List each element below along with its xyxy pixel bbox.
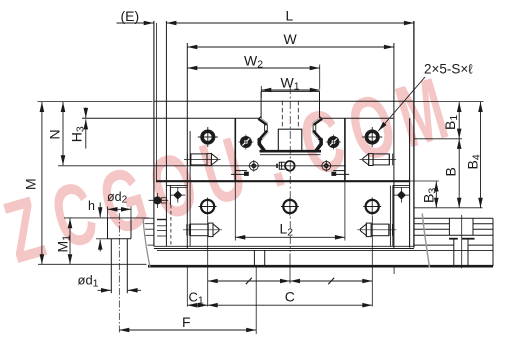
hidden slot line left <box>281 101 283 129</box>
leader line 2x5 <box>378 77 425 131</box>
rack line 2 <box>414 223 450 225</box>
v-groove hatch band A left <box>259 118 267 124</box>
inner right vertical (W ext + table edge) <box>393 43 395 249</box>
dim H3 lower shaft with up arrow <box>85 119 87 148</box>
locating pin wide part <box>107 218 109 239</box>
dim B4 <box>480 102 482 208</box>
dim B3 <box>435 182 437 208</box>
dim L2 <box>235 236 345 238</box>
dim h upper arrow <box>99 203 101 218</box>
svg-text:Z: Z <box>0 178 54 282</box>
left end cap outer edge <box>153 21 155 246</box>
od2 extensions <box>107 207 109 218</box>
inner second vertical line <box>189 131 191 246</box>
chain extension right <box>371 216 373 307</box>
rack line 3 <box>414 228 450 230</box>
chain extension mid <box>289 254 291 284</box>
rack slot block sides <box>448 218 450 235</box>
watermark text diagonal <box>0 59 457 282</box>
left break line gray <box>143 218 150 267</box>
pin step edge <box>108 238 132 240</box>
hole row line / N extension <box>58 165 346 167</box>
svg-text:(E): (E) <box>121 8 140 24</box>
view vertical centerline <box>289 86 291 252</box>
svg-text:N: N <box>47 129 63 139</box>
clamp bracket right <box>332 171 349 176</box>
h bottom extension <box>96 238 108 240</box>
bottom band line 2 <box>154 248 414 250</box>
dim F <box>119 329 256 331</box>
rack slot centerline <box>461 215 463 268</box>
center grease nipple <box>277 161 295 171</box>
rack line 4 <box>414 234 493 236</box>
F right extension <box>255 267 257 334</box>
set screw S1 <box>184 154 221 166</box>
pin centerline <box>118 213 120 334</box>
dim W1 <box>261 89 320 91</box>
dim N <box>62 102 64 165</box>
svg-text:B4: B4 <box>464 154 482 169</box>
B dims bottom extension <box>414 207 483 209</box>
M top extension <box>38 100 153 102</box>
oblique tick 1 <box>246 278 252 285</box>
rail block left side <box>260 91 262 118</box>
bottom band long line <box>157 249 493 251</box>
v-groove hatch band B left <box>259 131 267 151</box>
rack line 5 <box>414 244 454 246</box>
W1 left extension <box>260 86 262 98</box>
rack right edge <box>492 218 494 266</box>
svg-text:B3: B3 <box>420 188 438 203</box>
dim od1 right arrow <box>128 289 141 291</box>
svg-text:L2: L2 <box>280 221 294 239</box>
small counterbore P2 <box>321 160 333 172</box>
clamp bracket left <box>231 171 248 176</box>
svg-text:C: C <box>285 288 295 304</box>
svg-text:L: L <box>286 8 294 24</box>
pin narrow sides + od1 extensions <box>110 239 112 293</box>
rail block right side <box>319 91 321 118</box>
socket screw head C dark <box>326 135 341 150</box>
rail section bottom thick <box>260 150 322 153</box>
svg-text:H3: H3 <box>68 126 86 142</box>
oblique tick 2 <box>328 278 334 285</box>
left end cap middle line <box>155 23 157 181</box>
right plate top double line <box>393 184 410 186</box>
table bottom surface line left <box>64 217 149 219</box>
svg-text:M1: M1 <box>55 235 73 253</box>
svg-text:B: B <box>443 167 459 176</box>
rail block top <box>261 90 319 92</box>
dim H3 upper segment <box>85 108 87 118</box>
svg-text:2×5-S×ℓ: 2×5-S×ℓ <box>424 62 473 77</box>
center tongue rect <box>278 129 302 151</box>
svg-text:W1: W1 <box>281 74 300 92</box>
corner connector left <box>259 116 261 119</box>
dim W2 <box>187 67 319 69</box>
socket screw head B dark <box>238 135 253 150</box>
svg-text:C1: C1 <box>189 290 204 307</box>
right outer edge <box>413 21 415 248</box>
dim C <box>208 304 373 306</box>
hidden slot line right <box>297 101 299 129</box>
bottom band line 1 (cap/plate bottoms) <box>154 245 414 247</box>
small counterbore P1 <box>248 160 260 172</box>
groove wall pair left <box>264 124 266 131</box>
dim W <box>187 46 394 48</box>
dim C1 <box>187 304 207 306</box>
dim od1 left arrow <box>98 289 112 291</box>
tick below base at rail end <box>393 267 395 274</box>
svg-text:M: M <box>23 178 39 190</box>
dim M <box>41 102 43 264</box>
inner top line right part <box>321 117 394 119</box>
mid vertical left L2 edge <box>234 118 236 181</box>
right plate left edge pair <box>389 185 391 246</box>
W2 right extension <box>319 65 321 90</box>
chain dim left segment <box>208 280 290 282</box>
set screw S4 <box>360 154 397 166</box>
plan view top edge <box>154 100 414 102</box>
svg-text:F: F <box>182 314 191 330</box>
inner top line left part (also H3 extension) <box>82 117 259 119</box>
left end cap inner edge <box>165 21 167 246</box>
hidden rail lines inside left cap <box>157 219 166 221</box>
through hole E <box>199 198 217 216</box>
table/base boundary thick line <box>156 180 410 182</box>
dim h lower arrow <box>99 240 101 252</box>
base bottom thick edge <box>148 265 493 268</box>
corner connector right <box>320 116 322 119</box>
B3 top extension <box>410 180 439 182</box>
left base stub lines <box>144 217 154 219</box>
rail joint vertical pair <box>253 250 255 265</box>
left plate left edge <box>169 185 171 205</box>
mid vertical right L2 edge <box>344 118 346 181</box>
chain extension left <box>207 216 209 307</box>
M bottom extension thin <box>38 263 147 265</box>
rack break line gray <box>422 214 429 268</box>
rack side view: line 1 <box>414 217 493 219</box>
dim M1 <box>69 218 71 264</box>
inner left vertical (W ext + table edge) <box>186 43 188 249</box>
counterbore hole A <box>198 127 218 147</box>
groove wall pair right <box>312 124 314 131</box>
through hole G dark ring <box>363 198 381 216</box>
dim od2 <box>108 208 132 210</box>
diamond screw J left plate <box>170 188 185 203</box>
rack slot notch bars <box>449 238 458 240</box>
v-groove hatch band A right <box>313 118 321 124</box>
dim (E) <box>117 22 154 24</box>
chain dim right segment <box>290 280 372 282</box>
counterbore hole D (leader target) <box>362 127 382 147</box>
set screw S2 <box>183 223 222 237</box>
diamond screw L right plate <box>394 188 409 203</box>
rack slot legs <box>453 239 455 265</box>
svg-text:ød1: ød1 <box>78 273 99 290</box>
svg-text:h: h <box>88 199 95 213</box>
svg-text:.: . <box>252 107 294 206</box>
set screw S3 <box>357 223 396 237</box>
svg-text:W: W <box>284 31 298 47</box>
svg-text:W2: W2 <box>244 52 263 70</box>
through hole F <box>281 198 299 216</box>
C1 left extension <box>186 267 188 307</box>
B1/B boundary extension <box>414 138 462 140</box>
v-groove hatch band B right <box>313 131 321 151</box>
dim B1 <box>458 102 460 139</box>
dim L <box>166 22 414 24</box>
left plate top double line <box>166 184 187 186</box>
top edge extension to B4 <box>414 100 484 102</box>
left grease nipple <box>149 193 169 208</box>
rail section bottom thin shadow <box>260 154 321 156</box>
dim B <box>458 139 460 208</box>
right inner edge <box>409 118 411 247</box>
